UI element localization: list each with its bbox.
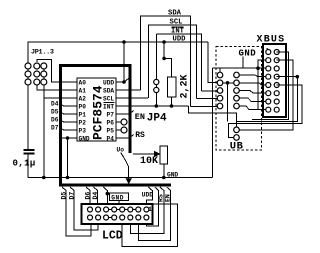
svg-text:EN: EN [135, 112, 145, 122]
node INT/pullup [170, 104, 174, 108]
pins LCD top row [88, 207, 149, 212]
node GND junction pot [162, 176, 166, 180]
svg-text:GND: GND [111, 194, 124, 201]
label GND framed [110, 193, 129, 201]
wire SCL leg into UB [197, 98, 218, 100]
svg-text:UDD: UDD [103, 80, 114, 87]
wire wiper arrow [133, 153, 156, 155]
svg-text:LCD: LCD [102, 230, 123, 243]
svg-text:D5: D5 [51, 109, 59, 116]
svg-text:P4: P4 [107, 136, 115, 143]
wire bus exit GND to LCD [103, 187, 107, 210]
wire XBUS right wrap row2 [240, 60, 293, 130]
pins UB jumper pair [234, 127, 240, 133]
wire UB col2 row3 to XBUS [237, 91, 269, 94]
node GND junction cap/JP [42, 176, 46, 180]
dashed box UB [216, 47, 262, 151]
svg-text:UDD: UDD [173, 36, 187, 44]
bus cable thick rectangle around IC [61, 66, 172, 186]
pins LCD bottom row [88, 215, 149, 220]
wire XBUS right wrap row1 [252, 52, 289, 120]
IC U1 PCF8574 box [77, 78, 116, 141]
wire GND hook down [258, 68, 264, 110]
wire GND to XBUS [213, 67, 269, 69]
svg-text:A0: A0 [79, 80, 87, 87]
svg-text:JP1..3: JP1..3 [31, 48, 54, 56]
wire pullup bottom to INT [171, 97, 173, 106]
pins XBUS 2x8 [266, 50, 279, 113]
wire LCD top chain [106, 209, 138, 211]
svg-text:1: 1 [148, 206, 152, 213]
node VDD junction at pullup branch [162, 40, 166, 44]
wire SDA pin [116, 89, 141, 91]
svg-text:2,2K: 2,2K [180, 74, 191, 98]
wire P1 stub with bus entry [60, 111, 78, 114]
wire P7 to EN bus entry [116, 111, 134, 115]
connector JP4 pin 1 (P6) [116, 121, 121, 123]
wire INT leg into UB [202, 90, 218, 92]
wire SCL bracket [149, 25, 197, 99]
wire XBUS right wrap row4 [236, 77, 297, 122]
wire SDA bracket [141, 16, 191, 107]
pins UB col2 [234, 72, 240, 78]
wire JP col1 down to cap [27, 63, 29, 149]
svg-text:10K: 10K [140, 156, 158, 167]
svg-text:D6: D6 [85, 192, 92, 200]
wire VDD pin with leg and bus entry [116, 81, 124, 83]
wire INT bracket [156, 34, 201, 91]
wire P4 to RS bus entry [116, 135, 134, 139]
wire bus exit D4 [94, 187, 98, 210]
wire bus exit RS to LCD [130, 187, 164, 234]
wire GND riser right [212, 68, 214, 177]
svg-text:SCL: SCL [103, 96, 114, 103]
svg-text:P5: P5 [107, 128, 115, 135]
wire LCD outer hook [122, 204, 177, 246]
svg-text:RS: RS [135, 131, 145, 140]
pins UB col1 [217, 72, 223, 78]
wire JP col2 bracket to A0 [37, 59, 77, 82]
node VDD junction at A-leg [122, 40, 126, 44]
svg-text:P1: P1 [79, 112, 87, 119]
svg-text:INT: INT [171, 28, 185, 36]
wire JP col3 to A2 [44, 97, 77, 99]
svg-text:D7: D7 [69, 192, 76, 200]
resistor R1 2,2K [168, 77, 177, 97]
svg-text:P3: P3 [79, 128, 87, 135]
wire pot bottom to GND [163, 164, 165, 178]
wire LCD bottom chain [106, 217, 114, 219]
label INT overline [172, 26, 184, 28]
wire bus exit D7 [70, 187, 98, 230]
wire JP col3 down to GND [43, 66, 45, 178]
node GND junction IC [66, 176, 70, 180]
svg-text:GND: GND [79, 136, 90, 143]
wire UB col2 row4 to XBUS [237, 98, 269, 101]
svg-text:UDD: UDD [142, 191, 153, 198]
svg-text:EN: EN [164, 194, 171, 202]
wire bus exit VDD to LCD pin1 [146, 187, 152, 210]
wire P3 stub with bus entry [60, 127, 78, 130]
wire VDD rail top [28, 42, 208, 63]
pins JP1..3 3x3 [25, 63, 31, 69]
jumper JP in INT line [155, 34, 157, 106]
svg-text:0,1µ: 0,1µ [13, 159, 36, 169]
wire P2 stub with bus entry [60, 119, 78, 122]
svg-text:GND: GND [239, 49, 257, 59]
svg-text:SCL: SCL [170, 19, 183, 27]
wire SDA leg into UB [191, 106, 218, 108]
connector JP4 pin 2 (P5) [116, 129, 121, 131]
svg-text:SDA: SDA [103, 88, 114, 95]
svg-text:D7: D7 [51, 125, 59, 132]
wire bus exit D5 [62, 187, 91, 236]
svg-text:D6: D6 [51, 117, 59, 124]
wire UB row1 stub up to GND [219, 68, 221, 72]
capacitor C1 0,1u [24, 149, 35, 151]
svg-text:P0: P0 [79, 104, 87, 111]
svg-text:P7: P7 [107, 112, 115, 119]
pin INT overline [104, 102, 115, 104]
wire Vo arrow to bus [121, 153, 129, 179]
wire INT right hook [189, 106, 237, 126]
connector XBUS box [263, 44, 286, 117]
wire junction down from VDD row [227, 83, 229, 122]
svg-text:P6: P6 [107, 120, 115, 127]
wire hook to LCD pin2 [146, 187, 158, 226]
svg-text:UB: UB [230, 141, 244, 153]
wire UB col2 row5 to XBUS [237, 106, 269, 110]
wire UB row2 across [223, 83, 268, 85]
svg-text:A2: A2 [79, 96, 87, 103]
wire UB col2 row1 to XBUS [237, 75, 269, 77]
wire JP col2 to A1 [37, 85, 77, 90]
wire VDD branch to pullup [164, 42, 172, 77]
wire bus exit EN to LCD [138, 187, 170, 241]
svg-text:P2: P2 [79, 120, 87, 127]
svg-text:Uo: Uo [117, 147, 125, 154]
svg-text:A1: A1 [79, 88, 87, 95]
wire bus exit D6 [86, 187, 90, 210]
svg-text:JP4: JP4 [147, 113, 167, 125]
wire XBUS right wrap row5 [228, 85, 301, 138]
wire P0 stub with bus entry [60, 103, 78, 106]
connector LCD box [82, 204, 153, 224]
svg-text:GND: GND [167, 172, 178, 179]
wire GND pin down [62, 137, 77, 139]
svg-text:D4: D4 [92, 192, 99, 200]
wire GND horizontal [28, 177, 213, 179]
svg-text:INT: INT [103, 104, 114, 111]
svg-text:D5: D5 [61, 192, 68, 200]
node INT/jumper [155, 104, 159, 108]
wire SCL pin [116, 97, 148, 99]
svg-text:SDA: SDA [168, 10, 182, 18]
potentiometer R2 10K (contrast) [160, 146, 168, 164]
wire INT pin to pullup [116, 105, 189, 107]
wire VDD leg to UB [208, 42, 217, 83]
svg-text:D4: D4 [51, 101, 59, 108]
